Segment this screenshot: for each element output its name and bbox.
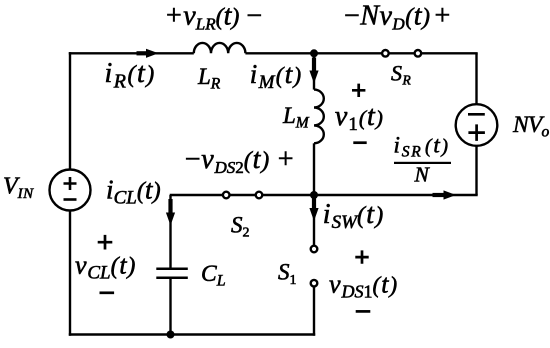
switch S_1 [311, 246, 318, 287]
wire top-left horizontal [69, 52, 194, 54]
wire C_L branch upper [169, 195, 171, 268]
wire bottom horizontal [69, 333, 315, 335]
wire center vertical S_1 branch upper [313, 195, 315, 246]
node B middle junction [310, 191, 318, 199]
wire center vertical S_1 branch lower [313, 287, 315, 336]
label plus of v_CL [98, 235, 113, 250]
wire right vertical lower [475, 146, 477, 195]
wire center vertical below L_M [313, 143, 315, 195]
label minus of v_CL [100, 291, 115, 294]
inductor L_R [194, 43, 246, 53]
wire right vertical upper [475, 53, 477, 104]
current arrow i_SW [309, 208, 318, 221]
voltage source V_IN [50, 170, 91, 211]
switch S_2 [223, 192, 262, 199]
label plus of v_1 [352, 84, 365, 97]
inductor L_M [314, 90, 324, 144]
source NVo [456, 104, 498, 146]
wire middle horizontal [170, 194, 478, 196]
wire left vertical lower [69, 211, 71, 336]
svg-text:iR(t): iR(t) [105, 58, 156, 93]
fraction bar of i_SR(t)/N [394, 162, 451, 164]
switch S_R [382, 50, 421, 57]
label minus of v_DS1 [356, 310, 371, 313]
current arrow i_CL [166, 213, 175, 226]
node A top junction [310, 49, 318, 57]
minus sign of V_IN [64, 198, 77, 201]
plus sign of V_IN [64, 177, 77, 190]
svg-text:v1(t): v1(t) [335, 101, 384, 135]
svg-text:iM(t): iM(t) [250, 59, 303, 93]
minus sign of NVo [468, 113, 485, 116]
wire center vertical above L_M [313, 53, 315, 89]
label minus of v_1 [353, 141, 366, 144]
plus sign of NVo [468, 124, 485, 140]
node C bottom junction [167, 331, 175, 339]
wire left vertical upper [69, 52, 71, 169]
capacitor C_L [156, 269, 188, 278]
wire C_L branch lower [169, 279, 171, 336]
current arrow i_M [309, 71, 318, 84]
label plus of v_DS1 [355, 250, 368, 263]
wire top-right horizontal [314, 52, 478, 54]
current arrow i_R [146, 49, 159, 58]
wire top-middle horizontal [245, 52, 314, 54]
svg-text:N: N [414, 163, 431, 187]
current arrow i_SR [444, 190, 457, 199]
